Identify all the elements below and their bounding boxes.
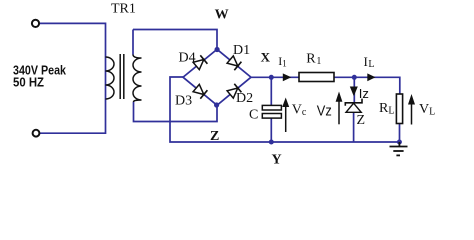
svg-text:Y: Y [272,153,282,168]
svg-text:W: W [215,7,229,22]
svg-text:50 HZ: 50 HZ [13,74,44,89]
svg-text:TR1: TR1 [111,2,136,17]
svg-text:D3: D3 [175,94,192,109]
svg-text:D4: D4 [179,51,196,66]
svg-text:D2: D2 [236,91,253,106]
svg-text:Z: Z [357,113,366,128]
svg-text:Z: Z [210,129,219,144]
svg-text:C: C [249,108,258,123]
svg-text:D1: D1 [233,43,250,58]
svg-text:X: X [261,49,271,64]
svg-text:Vz: Vz [317,102,332,119]
svg-text:Iz: Iz [359,86,369,101]
